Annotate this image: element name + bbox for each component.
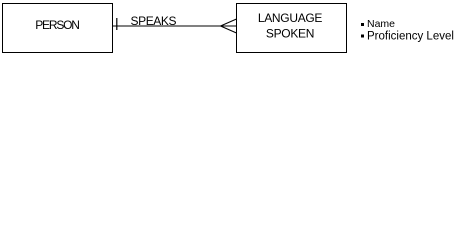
entity box LANGUAGE SPOKEN <box>237 4 347 53</box>
svg-text:Proficiency Level: Proficiency Level <box>367 31 454 43</box>
svg-text:SPEAKS: SPEAKS <box>131 14 177 28</box>
svg-text:LANGUAGE: LANGUAGE <box>258 11 323 25</box>
relationship wire <box>113 25 237 27</box>
svg-text:SPOKEN: SPOKEN <box>266 27 314 41</box>
entity box PERSON <box>3 4 113 53</box>
attribute bullet square 2 <box>361 35 364 38</box>
crow's foot top prong <box>221 19 237 26</box>
cardinality one tick <box>116 18 118 30</box>
crow's foot bottom prong <box>221 26 237 33</box>
svg-text:PERSON: PERSON <box>35 18 79 32</box>
attribute bullet square 1 <box>361 23 364 26</box>
svg-text:Name: Name <box>367 18 395 30</box>
